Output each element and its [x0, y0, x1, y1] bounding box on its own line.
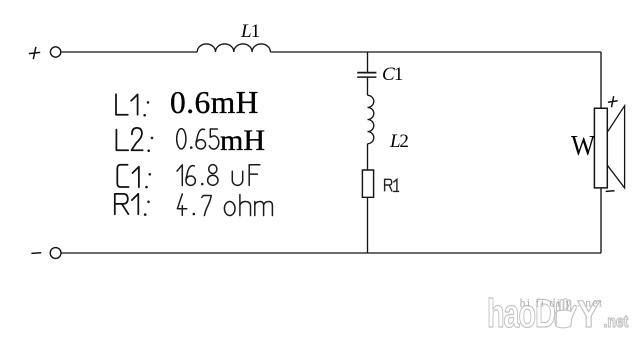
svg-text:hi fi di y . net: hi fi di y . net	[520, 296, 604, 310]
svg-text:.net: .net	[604, 313, 629, 332]
